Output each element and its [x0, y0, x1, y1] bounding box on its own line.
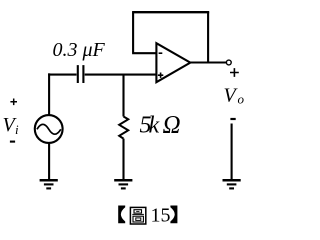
capacitor C1 plates — [78, 65, 84, 83]
ground at output reference — [223, 180, 241, 188]
label + for Vo — [230, 68, 239, 77]
AC source Vi circle — [35, 115, 63, 143]
caption character tu (figure 圖) — [130, 207, 145, 224]
wire: left vertical from corner down to source top — [48, 73, 50, 115]
svg-text:0.3 μF: 0.3 μF — [53, 39, 106, 61]
svg-text:15: 15 — [151, 205, 171, 227]
caption right lens bracket — [170, 206, 177, 224]
wire: resistor top from T junction — [122, 75, 124, 117]
wire: resistor bottom to ground — [122, 139, 124, 180]
op-amp U1 triangle — [156, 43, 190, 82]
wire: op-amp output to terminal — [190, 61, 227, 63]
wire: feedback left vertical and stub to inverting input — [132, 12, 156, 53]
op-amp minus sign — [159, 52, 163, 54]
ground under source — [40, 180, 58, 188]
wire: Vo minus terminal down to ground — [231, 124, 233, 180]
output terminal node (open circle) — [226, 60, 231, 65]
label + above Vi — [10, 99, 17, 106]
wire: top horizontal, source corner to capacitor left plate — [48, 74, 76, 76]
label - below Vi — [10, 141, 15, 143]
sine wave inside source — [37, 124, 61, 134]
label - for Vo — [230, 118, 235, 120]
svg-text:k: k — [149, 112, 160, 138]
op-amp plus sign — [158, 73, 163, 78]
caption left lens bracket — [118, 206, 125, 224]
wire: capacitor right plate to op-amp plus input — [85, 74, 157, 76]
wire: source bottom to ground — [48, 143, 50, 180]
resistor R1 zigzag — [119, 117, 128, 139]
ground under resistor — [114, 180, 132, 188]
wire: feedback top horizontal — [132, 11, 209, 13]
svg-text:i: i — [15, 122, 19, 137]
wire: feedback right vertical down to output node — [207, 12, 209, 62]
svg-text:o: o — [238, 92, 245, 107]
svg-text:Ω: Ω — [163, 111, 181, 138]
